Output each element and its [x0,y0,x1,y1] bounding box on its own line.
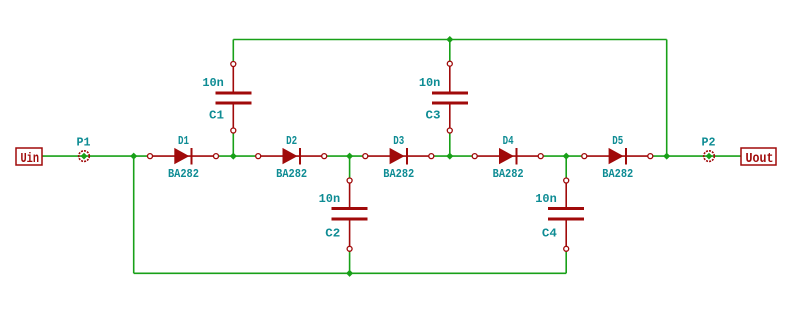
pin 2 [347,246,352,251]
net label box Uout [741,148,776,165]
port P2 (pinref diamond) [706,153,713,160]
svg-text:D1: D1 [178,134,189,148]
pin 1 [564,178,569,183]
wire net Uin: label box to D1 anode [42,155,150,157]
diode D3 [363,148,434,164]
net label box Uin [16,148,42,165]
wire C1 upper lead to top rail [232,40,234,65]
svg-text:10n: 10n [535,192,557,206]
pin 2 (cathode) [429,154,434,159]
svg-text:BA282: BA282 [276,167,307,181]
junction main line / C2 [346,153,353,160]
pin 1 (anode) [256,154,261,159]
wire C3 upper lead to top rail [449,40,451,64]
pin 2 [447,128,452,133]
svg-text:C1: C1 [209,109,224,123]
pin 2 (cathode) [648,154,653,159]
svg-text:D5: D5 [612,134,623,148]
diode D5 [582,148,653,164]
junction main line / C1 [230,153,237,160]
svg-text:D2: D2 [286,134,297,148]
diode D2 [256,148,327,164]
junction bottom rail / C2 [346,270,353,277]
capacitor C3 [432,61,468,133]
pin 1 (anode) [363,154,368,159]
wire left vertical drop to bottom rail [133,156,135,273]
wire net N4: D4 cathode to D5 anode [541,155,584,157]
pin 2 [564,246,569,251]
wire C2 lower lead to bottom rail [349,249,351,273]
svg-text:D3: D3 [393,134,404,148]
diode D1 [148,148,219,164]
pin 1 (anode) [582,154,587,159]
pin 2 (cathode) [214,154,219,159]
pin 2 (cathode) [322,154,327,159]
svg-text:BA282: BA282 [493,167,524,181]
pin 1 (anode) [148,154,153,159]
wire net N1: D1 cathode to D2 anode [216,155,258,157]
wire top rail [233,39,666,41]
junction main line / C4 [563,153,570,160]
svg-text:C3: C3 [426,109,441,123]
wire net Uout: D5 cathode to Uout box [650,155,741,157]
svg-text:BA282: BA282 [383,167,414,181]
capacitor C2 [332,178,368,251]
pin 1 [347,178,352,183]
svg-text:Uout: Uout [746,151,774,167]
wire C4 lower lead to bottom rail [565,249,567,273]
svg-text:C2: C2 [325,227,340,241]
svg-text:10n: 10n [202,76,224,90]
svg-text:BA282: BA282 [168,167,199,181]
wire C1 lower lead to main line [232,131,234,157]
pin 2 (cathode) [538,154,543,159]
junction main line / right vertical [663,153,670,160]
port P2 dashed circle [704,151,715,162]
wire net N3: D3 cathode to D4 anode [431,155,474,157]
wire right vertical from top rail to main line [666,40,668,157]
wire C2 upper lead to main line [349,156,351,180]
junction top rail / C3 [446,36,453,43]
capacitor C1 [215,62,251,134]
junction main line / left drop [130,153,137,160]
svg-text:P1: P1 [77,136,91,150]
svg-text:10n: 10n [319,192,341,206]
port P1 (pinref diamond) [81,153,88,160]
svg-text:P2: P2 [702,136,716,150]
svg-text:C4: C4 [542,227,557,241]
diode D4 [472,148,543,164]
svg-text:Uin: Uin [21,151,40,167]
wire C3 lower lead to main line [449,131,451,157]
svg-text:D4: D4 [503,134,514,148]
wire net N2: D2 cathode to D3 anode [324,155,365,157]
pin 1 (anode) [472,154,477,159]
port P1 dashed circle [79,151,90,162]
pin 1 [231,62,236,67]
junction main line / C3 [446,153,453,160]
wire bottom rail [134,272,567,274]
wire C4 upper lead to main line [565,156,567,180]
pin 2 [231,128,236,133]
pin 1 [447,61,452,66]
svg-text:BA282: BA282 [602,167,633,181]
capacitor C4 [548,178,584,251]
svg-text:10n: 10n [419,76,441,90]
